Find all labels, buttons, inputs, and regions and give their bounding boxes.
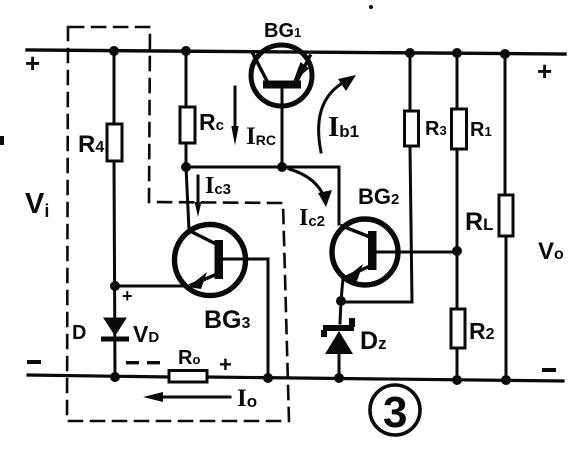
junction R2 bottom rail: [452, 375, 462, 385]
svg-text:+: +: [537, 56, 552, 86]
wire BG2 base lead: [374, 251, 457, 254]
wire BG1 base: [281, 88, 284, 167]
junction Dz bottom rail: [334, 373, 344, 383]
wire RL column: [504, 53, 507, 195]
svg-text:R2: R2: [469, 318, 495, 344]
svg-text:Ic3: Ic3: [205, 173, 231, 199]
wire bottom rail right: [207, 377, 563, 381]
wire R1 column: [456, 53, 459, 109]
svg-text:BG1: BG1: [264, 20, 301, 42]
junction R4 top rail: [109, 46, 119, 56]
svg-text:RL: RL: [465, 208, 493, 236]
svg-text:BG2: BG2: [358, 184, 399, 209]
arrow Io: [143, 392, 230, 402]
junction R3 top rail: [405, 48, 415, 58]
arrow Ib1 curved: [319, 75, 356, 152]
wire R2 bottom: [456, 348, 459, 380]
arrow IRC: [231, 87, 238, 146]
arrow Ic2 curved: [289, 169, 332, 207]
svg-text:3: 3: [383, 388, 407, 437]
wire BG3 collector riser: [186, 167, 189, 230]
transistor BG3: [175, 225, 246, 296]
wire R3 column: [409, 53, 412, 110]
svg-text:Io: Io: [237, 385, 257, 412]
diode D: [101, 318, 129, 342]
resistor R3: [405, 111, 419, 146]
resistor RL: [499, 195, 513, 236]
junction node R1-R2 divider tap / BG2 base: [452, 246, 462, 256]
label minus output bottom: [542, 368, 556, 372]
transistor BG2: [332, 219, 398, 285]
junction node Rc bottom / BG3 collector: [181, 162, 191, 172]
label minus minus at Ro: [126, 361, 139, 364]
wire Rc column: [185, 51, 188, 107]
svg-text:R3: R3: [425, 118, 447, 140]
svg-text:Ib1: Ib1: [328, 111, 359, 143]
svg-text:Ic2: Ic2: [299, 205, 325, 231]
svg-text:+: +: [219, 352, 232, 377]
scan speck left edge: [0, 136, 4, 145]
dashed boundary box: [67, 27, 289, 421]
circled figure number 3: [370, 385, 420, 435]
svg-text:VD: VD: [133, 321, 159, 347]
arrow Ic3: [195, 176, 202, 217]
svg-text:Vi: Vi: [25, 188, 49, 221]
junction node BG3 emitter / diode D: [110, 281, 120, 291]
junction R1 top rail: [452, 48, 462, 58]
resistor R2: [451, 309, 465, 348]
svg-text:Rc: Rc: [199, 109, 224, 135]
svg-text:R1: R1: [470, 119, 492, 141]
wire bottom rail left: [28, 375, 169, 377]
junction node BG1 base: [277, 162, 287, 172]
wire R4 column: [113, 51, 116, 124]
svg-text:IRC: IRC: [246, 123, 276, 150]
svg-text:BG3: BG3: [204, 306, 251, 334]
resistor Ro: [169, 371, 207, 383]
svg-text:Ro: Ro: [178, 347, 200, 369]
junction Rc top rail: [181, 46, 191, 56]
svg-text:D: D: [72, 322, 86, 344]
resistor Rc: [180, 107, 195, 143]
resistor R1: [452, 109, 467, 149]
svg-text:R4: R4: [78, 131, 104, 158]
resistor R4: [107, 124, 122, 161]
zener diode Dz: [321, 301, 355, 378]
wire BG3 emitter to D node: [115, 285, 186, 288]
svg-text:Dz: Dz: [360, 327, 387, 355]
junction node BG2 emitter / Dz / R3: [336, 296, 346, 306]
junction RL bottom rail: [501, 375, 511, 385]
wire BG3 base lead: [223, 259, 268, 378]
wire BG2 emitter stub: [341, 278, 343, 301]
junction diode D bottom rail: [110, 372, 120, 382]
svg-text:+: +: [25, 48, 40, 78]
junction Ro right / BG3 base: [263, 373, 273, 383]
transistor BG1: [251, 45, 312, 106]
wire top rail +: [27, 50, 565, 54]
svg-text:Vo: Vo: [538, 238, 564, 265]
wire node row (Rc bottom to BG2 collector drop): [186, 167, 339, 224]
label minus input bottom: [27, 360, 41, 364]
svg-text:+: +: [122, 286, 133, 306]
junction RL top rail: [500, 49, 510, 59]
scan speck top: [369, 5, 373, 9]
